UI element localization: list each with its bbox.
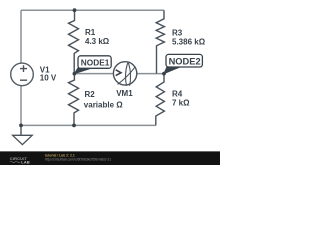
svg-text:5.386 kΩ: 5.386 kΩ: [172, 38, 206, 47]
svg-text:R4: R4: [172, 90, 183, 99]
svg-text:NODE2: NODE2: [169, 57, 201, 67]
wire top rail: [21, 9, 164, 11]
svg-text:R3: R3: [172, 29, 183, 38]
node flag NODE2: [164, 54, 202, 73]
footer bar: [0, 152, 220, 165]
wire left rail lower: [20, 86, 22, 126]
wire bottom rail: [21, 124, 156, 126]
wire middle left: [74, 73, 113, 75]
resistor R4: [156, 74, 190, 126]
svg-text:NODE1: NODE1: [81, 58, 110, 68]
junction node1: [73, 72, 77, 76]
voltage source V1: [11, 63, 57, 86]
svg-text:VM1: VM1: [116, 89, 133, 98]
svg-text:LAB: LAB: [21, 159, 30, 164]
svg-text:7 kΩ: 7 kΩ: [172, 99, 190, 108]
junction top: [73, 8, 77, 12]
svg-text:R2: R2: [85, 90, 96, 99]
node flag NODE1: [74, 56, 111, 74]
wire left rail upper: [20, 10, 22, 63]
ground: [13, 125, 33, 144]
resistor R2: [69, 74, 124, 126]
junction ground: [19, 124, 23, 128]
voltmeter VM1: [113, 62, 136, 98]
junction node2: [162, 72, 166, 76]
svg-text:R1: R1: [85, 28, 96, 37]
svg-text:http://circuitlab.com/c/6t7b83: http://circuitlab.com/c/6t7b83kd756v/lab…: [45, 158, 111, 162]
footer logo squiggle: [10, 161, 20, 163]
resistor R3: [156, 10, 205, 73]
svg-text:variable Ω: variable Ω: [84, 100, 123, 109]
svg-text:10 V: 10 V: [40, 73, 57, 82]
resistor R1: [69, 10, 110, 73]
svg-text:4.3 kΩ: 4.3 kΩ: [85, 37, 110, 46]
wire middle right: [137, 73, 164, 75]
junction bottom: [72, 124, 76, 128]
